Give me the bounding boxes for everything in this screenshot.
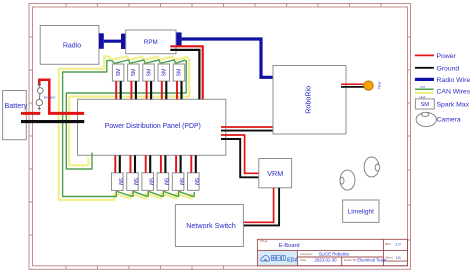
spark max SM1 — [112, 64, 124, 81]
legend: Camera — [416, 112, 461, 126]
svg-text:Drawn By:: Drawn By: — [344, 258, 358, 262]
wire SM4 ground (black) — [165, 81, 167, 99]
svg-text:Ground: Ground — [437, 65, 460, 72]
svg-text:Date:: Date: — [300, 258, 307, 262]
svg-text:VRM: VRM — [267, 169, 283, 178]
RSL lamp — [364, 81, 382, 90]
spark max SM5 — [173, 64, 185, 81]
svg-text:Limelight: Limelight — [348, 209, 375, 216]
wire SM2 ground (black) — [135, 81, 137, 99]
svg-text:RPM: RPM — [144, 39, 158, 46]
wire SM5 power (red) — [176, 81, 178, 99]
svg-text:REV:: REV: — [385, 242, 392, 246]
camera CAM2 — [364, 157, 380, 177]
svg-text:Battery: Battery — [5, 101, 28, 110]
radio — [40, 26, 99, 65]
svg-text:SM: SM — [146, 69, 152, 77]
wire battery negative (black) — [21, 120, 84, 123]
wire PDP-VRM power (red) — [221, 135, 259, 173]
radio wire Radio-RPM (blue) — [99, 33, 126, 49]
spark max SM9 (bottom row) — [157, 173, 169, 191]
svg-text:SM: SM — [420, 102, 429, 108]
svg-text:SM: SM — [116, 69, 122, 77]
spark max SM11 (bottom row) — [188, 173, 200, 191]
svg-text:RSL: RSL — [377, 82, 382, 91]
wire SM8 power (red) — [145, 155, 147, 173]
CAN bus low (yellow) — [59, 56, 195, 200]
RoboRio — [273, 66, 346, 135]
svg-text:Company:: Company: — [300, 252, 313, 256]
svg-text:SM: SM — [178, 178, 184, 186]
svg-text:SM: SM — [163, 178, 169, 186]
power distribution panel PDP — [78, 99, 226, 155]
svg-text:Camera: Camera — [437, 117, 461, 124]
wire SM3 ground (black) — [150, 81, 152, 99]
wire SM11 power (red) — [190, 155, 192, 173]
wire VRM-NetworkSwitch power (red) — [243, 188, 273, 223]
wire SM11 ground (black) — [195, 155, 197, 173]
svg-text:1/1: 1/1 — [396, 255, 401, 260]
svg-text:CAN Wires: CAN Wires — [437, 89, 471, 96]
wire SM2 power (red) — [130, 81, 132, 99]
legend: Ground — [415, 65, 459, 72]
wire SM7 power (red) — [130, 155, 132, 173]
wire PDP-RoboRio ground (black) — [221, 130, 281, 132]
camera CAM1 — [340, 170, 355, 190]
svg-text:SM: SM — [132, 178, 138, 186]
svg-text:Radio Wire: Radio Wire — [437, 77, 471, 84]
battery BAT1 — [3, 91, 28, 140]
wire SM10 ground (black) — [180, 155, 182, 173]
svg-text:Spark Max: Spark Max — [437, 102, 470, 109]
wire SM10 power (red) — [175, 155, 177, 173]
svg-text:RoboRio: RoboRio — [304, 86, 313, 114]
CAN bus high (green) — [63, 60, 195, 197]
wire SM6 ground (black) — [119, 155, 121, 173]
wire RPM power to PDP (red) — [170, 46, 202, 99]
svg-text:TITLE:: TITLE: — [259, 239, 268, 243]
svg-text:Power: Power — [437, 53, 457, 60]
wire SM5 ground (black) — [180, 81, 182, 99]
wire SM1 ground (black) — [120, 81, 122, 99]
spark max SM8 (bottom row) — [142, 173, 154, 191]
spark max SM3 — [143, 64, 155, 81]
spark max SM2 — [128, 64, 140, 81]
network switch — [175, 205, 243, 247]
RPM (radio power module) — [126, 30, 176, 54]
wire PDP-VRM ground (black) — [221, 139, 259, 177]
breaker CB1 — [36, 83, 56, 111]
svg-text:1.0: 1.0 — [395, 242, 401, 247]
svg-text:Power Distribution Panel (PDP): Power Distribution Panel (PDP) — [105, 123, 201, 130]
title block — [257, 239, 407, 266]
svg-text:2023-01-30: 2023-01-30 — [315, 257, 338, 262]
spark max SM7 (bottom row) — [127, 173, 139, 191]
spark max SM6 (bottom row) — [112, 173, 124, 191]
wire SM9 ground (black) — [164, 155, 166, 173]
svg-text:SM: SM — [162, 69, 168, 77]
svg-text:EDA: EDA — [287, 257, 298, 263]
wire SM9 power (red) — [160, 155, 162, 173]
wire SM1 power (red) — [115, 81, 117, 99]
wire RoboRio-RSL power (red) — [341, 83, 364, 85]
svg-text:SM: SM — [147, 178, 153, 186]
svg-text:Radio: Radio — [63, 43, 81, 50]
legend: Radio Wire — [415, 77, 470, 84]
svg-text:Electrical Team: Electrical Team — [357, 258, 386, 263]
svg-text:High: High — [420, 95, 426, 99]
svg-text:SM: SM — [131, 69, 137, 77]
svg-text:E-Board: E-Board — [279, 243, 300, 249]
svg-text:SM: SM — [193, 178, 199, 186]
wire SM6 power (red) — [114, 155, 116, 173]
wire SM8 ground (black) — [149, 155, 151, 173]
svg-text:SLICE Robotics: SLICE Robotics — [319, 251, 349, 256]
wire VRM-NetworkSwitch ground (black) — [243, 188, 279, 226]
wire RoboRio-RSL ground (black) — [341, 86, 364, 88]
svg-text:Breaker: Breaker — [44, 95, 57, 99]
legend: Power — [415, 53, 457, 60]
VRM (voltage regulator module) — [259, 159, 292, 188]
legend: CAN Wires — [415, 85, 471, 99]
wire PDP-RoboRio power (red) — [221, 126, 281, 128]
wire SM7 ground (black) — [134, 155, 136, 173]
wire battery positive (red) — [21, 80, 84, 114]
svg-text:SM: SM — [177, 69, 183, 77]
spark max SM4 — [158, 64, 170, 81]
wire RPM ground to PDP (black) — [170, 50, 199, 99]
svg-text:Network Switch: Network Switch — [186, 221, 236, 230]
limelight — [343, 200, 379, 222]
radio wire RPM-RoboRio (blue) — [176, 32, 280, 77]
legend: Spark Max — [415, 99, 469, 109]
svg-text:SM: SM — [117, 178, 123, 186]
wire SM3 power (red) — [146, 81, 148, 99]
wire SM4 power (red) — [161, 81, 163, 99]
spark max SM10 (bottom row) — [172, 173, 184, 191]
